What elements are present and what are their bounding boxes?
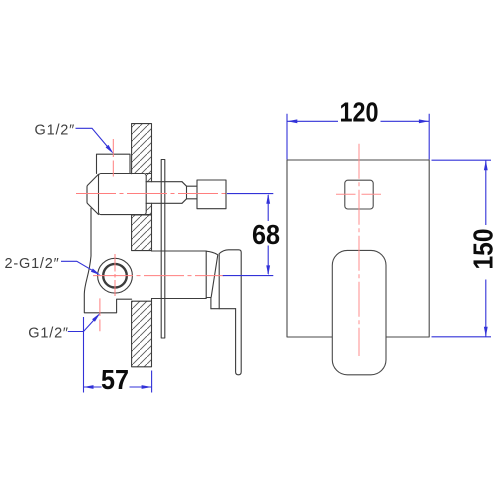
arrow 57 right: [142, 385, 152, 389]
wall hatch strip below stem: [146, 203, 151, 215]
svg-text:57: 57: [101, 364, 129, 395]
centerline upper axis: [76, 193, 227, 195]
cartridge housing behind wall: [152, 251, 207, 299]
diverter stem neck: [187, 186, 198, 199]
arrow 68 bottom: [266, 265, 270, 275]
svg-text:G1/2″: G1/2″: [28, 326, 69, 342]
arrowhead leader top G1/2: [106, 145, 114, 154]
arrow 150 bottom: [484, 327, 488, 337]
dim 150 ext lines: [432, 160, 492, 337]
wall hatch segment 3: [132, 301, 152, 367]
arrow 120 left: [287, 119, 297, 123]
body top line behind wall: [146, 173, 152, 175]
arrow 57 left: [84, 385, 94, 389]
escutcheon plate side view: [161, 160, 165, 339]
arrowhead leader bottom G1/2: [92, 313, 100, 322]
body bottom line behind wall: [146, 214, 152, 216]
centerline lower axis: [93, 275, 224, 277]
svg-text:2-G1/2″: 2-G1/2″: [5, 256, 60, 272]
front plate: [287, 160, 429, 337]
handle base taper: [206, 251, 218, 309]
centerline bottom fitting: [99, 298, 101, 331]
dim 57 ext lines: [84, 317, 152, 393]
handle front rounded rect: [332, 250, 386, 374]
leader bottom G1/2: [68, 315, 99, 332]
diverter button front: [345, 180, 373, 209]
wall outline: [132, 124, 152, 367]
dim 150 line: [485, 160, 487, 337]
arrow 68 top: [266, 194, 270, 204]
handle base underside: [211, 308, 236, 310]
svg-text:G1/2″: G1/2″: [35, 123, 76, 139]
centerline outlet circle vertical: [114, 254, 116, 296]
arrow 150 top: [484, 160, 488, 170]
dim 57 line: [84, 386, 152, 388]
arrowhead leader 2-G1/2: [91, 269, 101, 276]
diverter stem wide section: [146, 182, 182, 204]
body nose: [87, 174, 99, 214]
outlet circle outer: [98, 258, 133, 293]
centerline top fitting: [112, 139, 114, 177]
diverter stem taper: [182, 182, 187, 204]
svg-text:68: 68: [252, 219, 280, 250]
svg-text:150: 150: [468, 229, 499, 270]
lever handle: [219, 250, 241, 375]
centerline front square horizontal: [336, 193, 381, 195]
svg-text:120: 120: [340, 97, 379, 128]
dim 120 line: [287, 120, 429, 122]
dim 68 ext lines: [223, 194, 274, 276]
dim 120 ext lines: [287, 114, 429, 160]
top fitting G1/2: [97, 154, 131, 173]
outlet circle inner ring: [103, 264, 127, 288]
leader 2-G1/2: [61, 261, 98, 274]
valve main body: [99, 174, 147, 215]
dim 68 line: [267, 195, 269, 274]
leader top G1/2: [76, 128, 112, 151]
wall hatch segment 1: [132, 124, 152, 174]
arrow 120 right: [419, 119, 429, 123]
diverter knob: [197, 180, 226, 209]
handle front covers plate bottom edge: [76, 139, 381, 356]
lower spout body outline: [84, 208, 131, 312]
centerline front vertical: [358, 144, 360, 356]
wall hatch segment 2: [132, 215, 152, 251]
wall hatch strip above stem: [146, 174, 151, 182]
